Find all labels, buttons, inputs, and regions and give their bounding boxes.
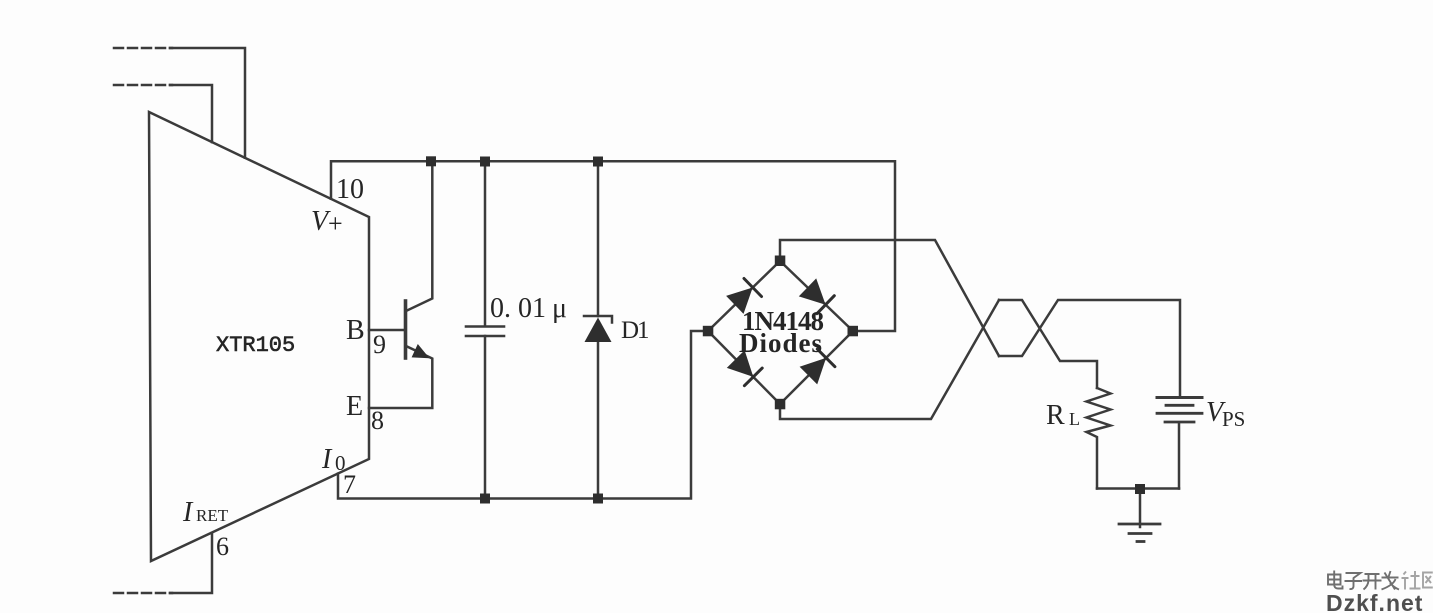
svg-text:9: 9 — [373, 330, 386, 359]
svg-text:L: L — [1069, 409, 1080, 429]
svg-text:XTR105: XTR105 — [216, 333, 295, 358]
svg-text:Diodes: Diodes — [739, 328, 823, 358]
svg-text:RET: RET — [196, 506, 229, 525]
svg-text:PS: PS — [1222, 407, 1245, 431]
svg-text:R: R — [1046, 400, 1065, 431]
svg-text:+: + — [328, 209, 343, 238]
svg-text:Dzkf.net: Dzkf.net — [1326, 590, 1423, 613]
svg-text:8: 8 — [371, 406, 384, 435]
svg-text:6: 6 — [216, 532, 229, 561]
svg-text:B: B — [346, 315, 365, 346]
svg-text:7: 7 — [343, 470, 356, 499]
svg-text:I: I — [321, 444, 333, 475]
svg-text:E: E — [346, 391, 363, 422]
svg-text:I: I — [182, 497, 194, 528]
svg-text:10: 10 — [336, 174, 364, 205]
svg-text:D1: D1 — [621, 317, 648, 344]
svg-text:0. 01μ: 0. 01μ — [490, 293, 567, 324]
